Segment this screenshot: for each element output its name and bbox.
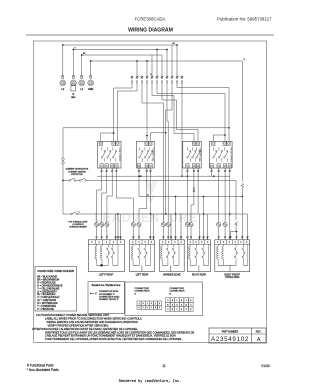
svg-text:3: 3	[177, 309, 178, 311]
wire S1 to LF element 3	[107, 173, 112, 223]
wire element return bus	[97, 175, 230, 177]
svg-text:COLOR CODE / CODE COULEUR: COLOR CODE / CODE COULEUR	[37, 271, 74, 273]
svg-text:CONNECTEUR: CONNECTEUR	[170, 291, 186, 293]
svg-text:WIRING ERRORS CAN CAUSE IMPROP: WIRING ERRORS CAN CAUSE IMPROPER AND DAN…	[47, 320, 139, 324]
svg-text:FCRE308CADA: FCRE308CADA	[135, 17, 166, 22]
svg-text:3: 3	[186, 300, 187, 302]
wire S4 to RF strip	[229, 173, 231, 237]
wire limiter branch	[231, 232, 237, 237]
element warmer zone	[160, 240, 185, 272]
svg-text:SURFACE DRAWER: SURFACE DRAWER	[69, 226, 87, 229]
switch output pins	[101, 168, 103, 170]
wire right feed	[247, 214, 249, 240]
plug right front 1	[217, 222, 221, 226]
svg-text:TRIPLE RING: TRIPLE RING	[225, 277, 240, 279]
svg-text:LEFT FRONT: LEFT FRONT	[99, 274, 114, 276]
svg-text:B: B	[190, 300, 191, 302]
svg-text:RIGHT FRONT: RIGHT FRONT	[224, 274, 240, 276]
svg-text:DUAL SURFACE: DUAL SURFACE	[118, 148, 121, 163]
fuse element-on indicator	[61, 159, 65, 164]
svg-text:WARMER ZONE: WARMER ZONE	[163, 273, 181, 276]
svg-text:G = GREEN/VERT: G = GREEN/VERT	[37, 291, 57, 293]
bus wire to indicator trunk	[63, 128, 229, 159]
element right front	[215, 240, 250, 272]
svg-text:Symbols/Symboles: Symbols/Symboles	[92, 283, 121, 287]
symbol connector glyph	[90, 293, 91, 294]
svg-text:LABEL ALL WIRES PRIOR TO DISCO: LABEL ALL WIRES PRIOR TO DISCONNECTION W…	[45, 317, 143, 321]
wire S3 return	[197, 173, 199, 214]
watermark logo	[145, 180, 157, 201]
wire pin11 to lower bus	[181, 82, 183, 176]
wire limiter to right thermal	[86, 180, 236, 182]
svg-text:B: B	[181, 309, 182, 311]
plug left front 3	[105, 222, 109, 226]
svg-text:CABLAGE PEUVENT ENTRAINER UN F: CABLAGE PEUVENT ENTRAINER UN FONCTIONNEM…	[45, 334, 176, 338]
switch limiter 1	[69, 180, 71, 182]
svg-text:Publication No: 5995738217: Publication No: 5995738217	[217, 16, 272, 21]
svg-text:CONNECTEUR: CONNECTEUR	[135, 291, 151, 293]
svg-text:8: 8	[143, 303, 144, 305]
svg-text:1: 1	[143, 307, 144, 309]
svg-text:CURRENT LIMITING: CURRENT LIMITING	[68, 171, 86, 173]
svg-text:3: 3	[181, 305, 182, 307]
wire S4 to RF element 1	[218, 173, 220, 223]
switch limiter 2	[80, 180, 82, 182]
svg-text:IDENTIFIEZ TOUS LES FILS AVANT: IDENTIFIEZ TOUS LES FILS AVANT DE LES DE…	[45, 330, 195, 334]
symbols legend box	[88, 282, 124, 314]
connector A table	[137, 301, 141, 305]
svg-text:B: B	[167, 305, 168, 307]
svg-text:CONNECTEUR AVEC: CONNECTEUR AVEC	[99, 295, 120, 298]
plug warmer 2	[166, 222, 170, 226]
wire S2 return 2	[150, 173, 152, 214]
bus GND wire	[91, 60, 243, 62]
thermal limiter TL2	[235, 181, 237, 221]
header rule	[26, 34, 274, 36]
wire pin4 to switch S2	[146, 82, 148, 141]
svg-text:BR = BROWN/BRUN: BR = BROWN/BRUN	[37, 279, 59, 281]
svg-text:01/24: 01/24	[261, 364, 269, 368]
wire pin3 to left rear element feed	[142, 82, 163, 222]
wire switch S4 jumper	[213, 135, 225, 141]
svg-text:B: B	[190, 309, 191, 311]
svg-text:R = RED/ROUGE: R = RED/ROUGE	[37, 282, 56, 284]
svg-text:1: 1	[151, 307, 152, 309]
element strip entry pins	[96, 237, 98, 238]
svg-text:3: 3	[190, 305, 191, 307]
svg-text:PROTECTOR: PROTECTOR	[71, 174, 83, 176]
svg-text:B: B	[176, 305, 177, 307]
connector tables box	[125, 282, 203, 316]
bus L2 wire	[63, 44, 177, 46]
bus L1 wire	[82, 54, 162, 56]
svg-text:P = PINK/ROSE: P = PINK/ROSE	[37, 309, 54, 311]
svg-text:3: 3	[186, 309, 187, 311]
wire oven feed bus	[139, 196, 242, 198]
supply terminal L2	[62, 45, 64, 77]
svg-text:ELEMENT ON INDICATOR: ELEMENT ON INDICATOR	[66, 168, 89, 171]
svg-text:LEADVENTURE: LEADVENTURE	[94, 211, 198, 225]
svg-text:ATTENTION:COUPEZ L'ALIMENTATIO: ATTENTION:COUPEZ L'ALIMENTATION AVANT DE…	[32, 327, 139, 331]
svg-text:NEU: NEU	[71, 97, 76, 99]
element right rear	[187, 240, 210, 272]
svg-text:B: B	[186, 305, 187, 307]
switch hot surface light	[71, 213, 73, 215]
surface switch S3	[183, 141, 201, 168]
svg-text:REV..: REV..	[256, 331, 262, 333]
svg-text:Rendered by LeadVenture, Inc.: Rendered by LeadVenture, Inc.	[119, 379, 182, 384]
wire pin6 to switch S4	[157, 82, 225, 141]
svg-text:FONCTIONNEMENT DE L'APPAREIL A: FONCTIONNEMENT DE L'APPAREIL APRES AVOIR…	[45, 337, 183, 341]
wire pin1 to switch S1	[114, 82, 132, 141]
svg-text:B: B	[172, 309, 173, 311]
svg-text:PART NUMBER: PART NUMBER	[222, 330, 239, 333]
diagram border frame	[34, 41, 267, 343]
wire pin2 to switch S1	[117, 82, 137, 141]
svg-text:GND: GND	[88, 89, 93, 91]
surface switch S4	[209, 141, 232, 168]
svg-text:GY = GREY/GRIS: GY = GREY/GRIS	[37, 300, 56, 302]
bus N wire	[73, 49, 167, 51]
svg-text:Y = YELLOW/JAUNE: Y = YELLOW/JAUNE	[37, 287, 60, 290]
svg-text:O = ORANGE/ORANGE: O = ORANGE/ORANGE	[37, 284, 63, 287]
svg-text:1: 1	[139, 303, 140, 305]
wire S2 return to bus	[138, 173, 140, 197]
surface switch S1	[97, 141, 121, 168]
svg-text:WARMER UNIT: WARMER UNIT	[198, 148, 201, 162]
svg-text:8: 8	[159, 303, 160, 305]
svg-text:* Non-Illustrated Parts: * Non-Illustrated Parts	[27, 368, 60, 372]
svg-text:LOCATED IN: LOCATED IN	[73, 223, 85, 226]
supply terminal GND	[90, 61, 92, 77]
supply terminal L1	[81, 55, 83, 77]
wire pin5 to switch S3	[152, 82, 194, 141]
wire S1 to LF element 2	[102, 173, 107, 223]
plug left rear 2	[137, 222, 141, 226]
wire branch to switch S2	[150, 133, 165, 142]
svg-text:HOT SURFACE LIGHT: HOT SURFACE LIGHT	[68, 220, 88, 223]
wire pin9 mid feed	[166, 82, 172, 214]
color code legend box	[35, 267, 77, 312]
plug right rear 1	[185, 222, 189, 226]
svg-text:CONNECTOR/: CONNECTOR/	[135, 288, 150, 290]
svg-text:TRIPLE SURFACE: TRIPLE SURFACE	[229, 147, 232, 163]
svg-text:A: A	[257, 337, 261, 343]
svg-text:BL = BLUE/BLEU: BL = BLUE/BLEU	[37, 294, 56, 296]
svg-text:8: 8	[139, 307, 140, 309]
wire switch S1 jumper	[101, 133, 114, 141]
svg-text:T = TAN/BRONZE: T = TAN/BRONZE	[37, 305, 56, 308]
supply terminal N	[72, 50, 74, 78]
svg-text:1: 1	[155, 303, 156, 305]
trunk wire	[62, 163, 64, 214]
svg-text:VERIFY PROPER OPERATION AFTER: VERIFY PROPER OPERATION AFTER SERVICING.	[48, 323, 110, 327]
svg-text:WIRING DIAGRAM: WIRING DIAGRAM	[128, 27, 173, 33]
svg-text:LEFT REAR: LEFT REAR	[136, 273, 149, 276]
svg-text:V = PURPLE/VIOLET: V = PURPLE/VIOLET	[37, 297, 60, 299]
plug left front 2	[100, 222, 104, 226]
wire S4 return	[211, 173, 213, 177]
wire S1 to LF element 1	[97, 173, 102, 223]
wire pin8 to warmer element feed	[167, 82, 168, 222]
thermal limiter TL1	[241, 61, 243, 182]
plug left rear 1	[131, 222, 135, 226]
svg-text:A23549102: A23549102	[211, 336, 249, 343]
neutral terminal box	[71, 86, 76, 91]
wire limiter row	[63, 180, 69, 182]
bus junction dots at stems	[62, 44, 64, 46]
wire pin10 to switch S4	[177, 82, 229, 141]
wire S3 to RR element 2 with connector	[193, 173, 195, 188]
svg-text:3: 3	[177, 300, 178, 302]
plug left front 1	[94, 222, 98, 226]
plug warmer 1	[161, 222, 165, 226]
element left front	[88, 240, 124, 272]
svg-text:8: 8	[147, 307, 148, 309]
connector B table	[166, 298, 171, 303]
svg-text:1: 1	[147, 303, 148, 305]
svg-text:11: 11	[162, 364, 166, 368]
svg-text:NUMERO DE PIN 'X': NUMERO DE PIN 'X'	[99, 299, 119, 301]
svg-text:CONNECTOR/: CONNECTOR/	[170, 288, 185, 290]
hot surface light wire	[63, 213, 71, 215]
svg-text:3: 3	[167, 300, 168, 302]
svg-text:CAUTION:DISCONNECT POWER BEFOR: CAUTION:DISCONNECT POWER BEFORE SERVICIN…	[36, 313, 110, 317]
part number box	[209, 328, 266, 343]
plug right rear 2	[189, 222, 193, 226]
svg-text:1: 1	[159, 307, 160, 309]
plug right front 2	[223, 222, 227, 226]
connector P1 pins	[131, 76, 133, 78]
svg-text:B: B	[181, 300, 182, 302]
wire pin7 to switch S3	[162, 82, 198, 141]
wire S4 to RF element 2	[224, 173, 226, 223]
neutral arrow	[72, 93, 75, 95]
svg-text:3: 3	[167, 309, 168, 311]
wire lower bus	[78, 213, 248, 215]
svg-text:BK = BLACK/NOIR: BK = BLACK/NOIR	[37, 276, 57, 279]
wire S2 to LR element 2	[139, 173, 147, 223]
svg-text:RIGHT REAR: RIGHT REAR	[192, 273, 206, 276]
svg-text:SURFACE UNIT: SURFACE UNIT	[151, 148, 154, 162]
element left rear	[130, 240, 155, 272]
wires lower bus to element strips	[115, 214, 117, 240]
svg-text:3: 3	[172, 305, 173, 307]
svg-text:8: 8	[151, 303, 152, 305]
svg-text:W = WHITE/BLANC: W = WHITE/BLANC	[37, 302, 58, 305]
svg-text:B: B	[172, 300, 173, 302]
svg-text:8: 8	[155, 307, 156, 309]
wire S3 to RR element 1	[186, 173, 188, 223]
bus drop wires to connector P1	[171, 45, 173, 76]
wire S1 to LR element 1	[116, 173, 133, 223]
surface switch S2	[137, 141, 155, 168]
